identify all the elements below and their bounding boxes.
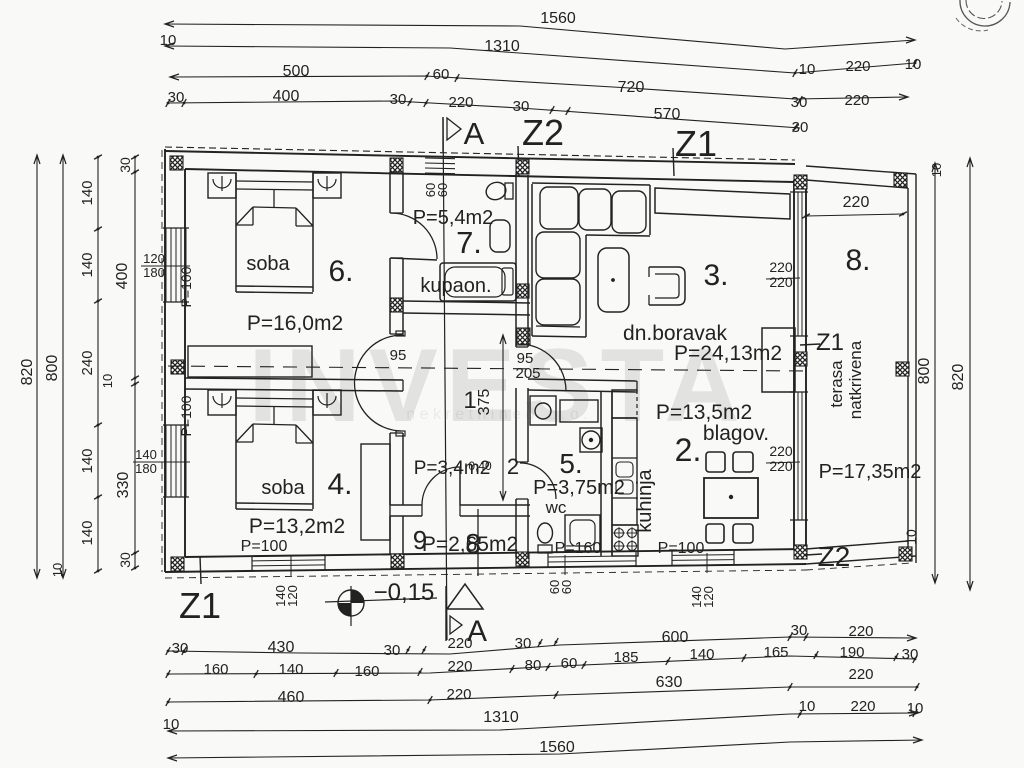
svg-text:30: 30 xyxy=(791,94,808,111)
svg-text:220: 220 xyxy=(769,443,793,459)
svg-text:terasa: terasa xyxy=(827,360,846,408)
svg-text:P=3,75m2: P=3,75m2 xyxy=(533,477,625,499)
svg-text:400: 400 xyxy=(273,88,300,105)
svg-text:30: 30 xyxy=(515,635,532,652)
svg-text:30: 30 xyxy=(172,640,189,657)
svg-text:30: 30 xyxy=(168,89,185,106)
svg-text:460: 460 xyxy=(278,689,305,706)
svg-text:30: 30 xyxy=(117,157,133,173)
svg-text:140: 140 xyxy=(79,252,96,277)
svg-text:220: 220 xyxy=(447,658,472,675)
svg-text:natkrivena: natkrivena xyxy=(846,340,865,419)
svg-text:30: 30 xyxy=(791,622,808,639)
svg-text:800: 800 xyxy=(44,355,61,382)
svg-text:570: 570 xyxy=(654,106,681,123)
svg-text:soba: soba xyxy=(246,253,290,275)
svg-text:120: 120 xyxy=(285,585,300,607)
svg-text:1: 1 xyxy=(463,387,476,414)
svg-text:220: 220 xyxy=(769,458,793,474)
svg-text:60: 60 xyxy=(435,183,450,197)
svg-text:220: 220 xyxy=(848,623,873,640)
svg-text:2: 2 xyxy=(507,454,519,479)
svg-text:430: 430 xyxy=(268,639,295,656)
svg-text:30: 30 xyxy=(792,119,809,136)
svg-text:120: 120 xyxy=(701,586,716,608)
svg-text:P=16,0m2: P=16,0m2 xyxy=(247,312,343,335)
svg-text:10: 10 xyxy=(905,56,922,73)
svg-text:10: 10 xyxy=(50,563,65,577)
svg-text:blagov.: blagov. xyxy=(703,422,769,445)
svg-text:P=24,13m2: P=24,13m2 xyxy=(674,342,782,365)
svg-text:80: 80 xyxy=(525,657,542,674)
svg-text:140: 140 xyxy=(278,661,303,678)
svg-text:−0,15: −0,15 xyxy=(374,579,435,606)
svg-text:165: 165 xyxy=(763,644,788,661)
svg-text:2.: 2. xyxy=(675,432,702,468)
svg-text:240: 240 xyxy=(79,350,96,375)
svg-text:7.: 7. xyxy=(456,225,482,260)
svg-text:330: 330 xyxy=(115,472,132,499)
svg-text:140: 140 xyxy=(79,448,96,473)
svg-text:Z2: Z2 xyxy=(818,541,851,572)
svg-text:1560: 1560 xyxy=(539,739,575,756)
svg-text:10: 10 xyxy=(163,716,180,733)
svg-text:30: 30 xyxy=(384,642,401,659)
svg-text:1310: 1310 xyxy=(483,709,519,726)
svg-text:0,40: 0,40 xyxy=(468,459,492,473)
svg-text:INVESTA: INVESTA xyxy=(248,328,747,444)
svg-text:1310: 1310 xyxy=(484,38,520,55)
svg-text:630: 630 xyxy=(656,674,683,691)
svg-text:220: 220 xyxy=(843,194,870,211)
svg-text:220: 220 xyxy=(850,698,875,715)
svg-text:400: 400 xyxy=(114,263,131,290)
svg-text:kupaon.: kupaon. xyxy=(420,275,491,297)
svg-text:wc: wc xyxy=(545,498,567,517)
svg-text:220: 220 xyxy=(848,666,873,683)
svg-text:10: 10 xyxy=(160,32,177,49)
svg-text:140: 140 xyxy=(689,646,714,663)
svg-text:Z1: Z1 xyxy=(179,585,221,626)
svg-text:1560: 1560 xyxy=(540,10,576,27)
svg-text:Z1: Z1 xyxy=(816,329,844,356)
svg-text:A: A xyxy=(464,116,485,151)
svg-text:30: 30 xyxy=(390,91,407,108)
svg-text:500: 500 xyxy=(283,63,310,80)
svg-text:220: 220 xyxy=(446,686,471,703)
svg-text:10: 10 xyxy=(100,374,115,388)
svg-text:140: 140 xyxy=(79,520,96,545)
svg-text:5.: 5. xyxy=(559,448,582,479)
svg-text:220: 220 xyxy=(769,274,793,290)
svg-text:60: 60 xyxy=(433,66,450,83)
svg-text:160: 160 xyxy=(354,663,379,680)
svg-text:140: 140 xyxy=(79,180,96,205)
svg-text:820: 820 xyxy=(19,359,36,386)
svg-text:30: 30 xyxy=(902,646,919,663)
svg-text:10: 10 xyxy=(929,163,944,177)
svg-text:6.: 6. xyxy=(328,255,353,288)
svg-text:8.: 8. xyxy=(845,244,870,277)
svg-text:P=100: P=100 xyxy=(241,538,288,555)
svg-text:60: 60 xyxy=(561,655,578,672)
svg-text:220: 220 xyxy=(844,92,869,109)
svg-text:720: 720 xyxy=(618,79,645,96)
svg-text:220: 220 xyxy=(448,94,473,111)
svg-text:185: 185 xyxy=(613,649,638,666)
svg-text:160: 160 xyxy=(203,661,228,678)
svg-text:95: 95 xyxy=(390,347,407,364)
svg-text:60: 60 xyxy=(559,580,574,594)
svg-text:P=13,5m2: P=13,5m2 xyxy=(656,401,752,424)
svg-text:205: 205 xyxy=(515,365,540,382)
svg-text:soba: soba xyxy=(261,477,305,499)
svg-text:P=100: P=100 xyxy=(658,540,705,557)
svg-text:220: 220 xyxy=(769,259,793,275)
svg-text:220: 220 xyxy=(845,58,870,75)
svg-text:600: 600 xyxy=(662,629,689,646)
svg-text:10: 10 xyxy=(799,61,816,78)
svg-text:190: 190 xyxy=(839,644,864,661)
svg-text:820: 820 xyxy=(950,364,967,391)
svg-text:800: 800 xyxy=(916,358,933,385)
svg-text:Z2: Z2 xyxy=(522,112,564,153)
svg-text:A: A xyxy=(467,615,487,648)
svg-text:140: 140 xyxy=(135,447,157,462)
svg-text:4.: 4. xyxy=(327,468,352,501)
svg-text:3.: 3. xyxy=(703,259,728,292)
svg-text:P=17,35m2: P=17,35m2 xyxy=(819,461,922,483)
svg-text:180: 180 xyxy=(135,461,157,476)
svg-text:10: 10 xyxy=(907,700,924,717)
svg-text:30: 30 xyxy=(117,552,133,568)
svg-text:P=13,2m2: P=13,2m2 xyxy=(249,515,345,538)
svg-text:10: 10 xyxy=(799,698,816,715)
svg-text:375: 375 xyxy=(476,389,493,416)
